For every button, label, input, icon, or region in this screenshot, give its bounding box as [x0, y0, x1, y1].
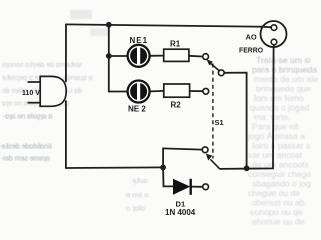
- junction dot top bus: [106, 22, 112, 28]
- wire top bus: [66, 24, 271, 26]
- svg-text:ɘɈƨɘb ɘbɒbilɒniʇ: ɘɈƨɘb ɘbɒbilɒniʇ: [1, 144, 52, 151]
- switch S1b contact (diode side): [203, 184, 209, 190]
- svg-text:xar um ancost: xar um ancost: [248, 150, 303, 160]
- switch S1a arm with arrow: [207, 59, 220, 70]
- wire lamp feed vertical: [108, 25, 110, 92]
- wire S1b pivot to right corner: [220, 45, 274, 169]
- svg-text:ɘ miʇ o: ɘ miʇ o: [126, 191, 149, 200]
- wire to NE2: [109, 91, 127, 93]
- svg-text:brinquedo que: brinquedo que: [256, 84, 311, 94]
- svg-text:oɿonoƨ ɒɈɿɘlɒ ɘb ɒmɘɈƨiƨ: oɿonoƨ ɒɈɿɘlɒ ɘb ɒmɘɈƨiƨ: [2, 62, 82, 69]
- svg-text:sbagando o jog: sbagando o jog: [252, 179, 311, 189]
- svg-text:NE 2: NE 2: [128, 105, 146, 114]
- svg-text:AO: AO: [246, 33, 257, 42]
- wire plug to bottom bus: [65, 101, 67, 168]
- svg-text:Para que nã: Para que nã: [252, 122, 299, 132]
- dashed link S1: [212, 64, 214, 159]
- svg-text:R2: R2: [171, 101, 182, 110]
- svg-text:quando o jogad: quando o jogad: [250, 103, 309, 113]
- svg-text:-ɒɿɒ on ɒloǫɿɒ ɒ: -ɒɿɒ on ɒloǫɿɒ ɒ: [3, 114, 53, 121]
- wire R1 to contact: [189, 55, 203, 58]
- wire bottom jog down to diode: [163, 167, 173, 186]
- svg-text:ma. torto.: ma. torto.: [254, 112, 290, 122]
- svg-text:loiro á passar s: loiro á passar s: [252, 141, 310, 151]
- neon lamp NE1: [128, 45, 150, 67]
- label AO FERRO: [239, 33, 264, 55]
- switch S1b arm with arrow: [206, 154, 220, 169]
- svg-text:ʞɈuo: ʞɈuo: [132, 176, 148, 185]
- svg-text:R1: R1: [170, 40, 181, 49]
- svg-text:Trata-se um si: Trata-se um si: [256, 55, 311, 65]
- wire diode to contact: [191, 186, 203, 188]
- wire left vertical to plug: [65, 24, 67, 81]
- svg-text:conseguir chego: conseguir chego: [248, 169, 311, 179]
- wire NE2 to R2: [151, 90, 164, 93]
- wire bottom bus: [66, 166, 163, 169]
- svg-text:S1: S1: [215, 118, 224, 127]
- svg-text:ehonue ou de: ehonue ou de: [252, 217, 305, 226]
- outlet socket AO FERRO: [261, 21, 287, 48]
- svg-text:lom um fomo: lom um fomo: [254, 93, 304, 103]
- diode D1: [173, 179, 191, 195]
- svg-text:1N 4004: 1N 4004: [165, 208, 196, 217]
- svg-text:110 V: 110 V: [22, 90, 40, 97]
- switch S1b contact (direct): [202, 147, 208, 153]
- resistor R1: [164, 49, 189, 61]
- switch S1a common pole: [218, 70, 224, 76]
- junction dot bottom left: [160, 165, 166, 171]
- svg-text:FERRO: FERRO: [239, 48, 264, 55]
- svg-text:obenuo ou ab: obenuo ou ab: [252, 198, 305, 208]
- svg-text:NE1: NE1: [130, 36, 149, 45]
- svg-text:eunopo ou qe: eunopo ou qe: [250, 207, 303, 217]
- svg-text:o ɿɒlɒ: o ɿɒlɒ: [126, 204, 145, 213]
- plug P1 110V: [28, 76, 67, 106]
- wire to NE1: [109, 55, 127, 57]
- switch S1a contact (R1 side): [203, 54, 209, 60]
- wire R2 to contact: [190, 90, 203, 92]
- neon lamp NE2: [128, 81, 150, 103]
- svg-text:chegue ou de: chegue ou de: [248, 188, 300, 198]
- svg-text:para o brinqueda: para o brinqueda: [252, 65, 317, 75]
- wire NE1 to R1: [151, 55, 164, 57]
- svg-text:mento de um ale: mento de um ale: [254, 74, 318, 84]
- junction dot bottom right: [244, 165, 250, 171]
- resistor R2: [164, 84, 190, 97]
- svg-text:-iɘb mɘƨ ɘmɒɿɒ: -iɘb mɘƨ ɘmɒɿɒ: [1, 156, 50, 163]
- junction dot NE1 branch: [106, 53, 112, 59]
- wire S1a common to right: [224, 73, 246, 169]
- switch S1a contact (R2 side): [203, 88, 209, 94]
- wire bottom jog up to S1b contact: [163, 148, 202, 167]
- svg-text:jogo À possa a: jogo À possa a: [247, 131, 305, 141]
